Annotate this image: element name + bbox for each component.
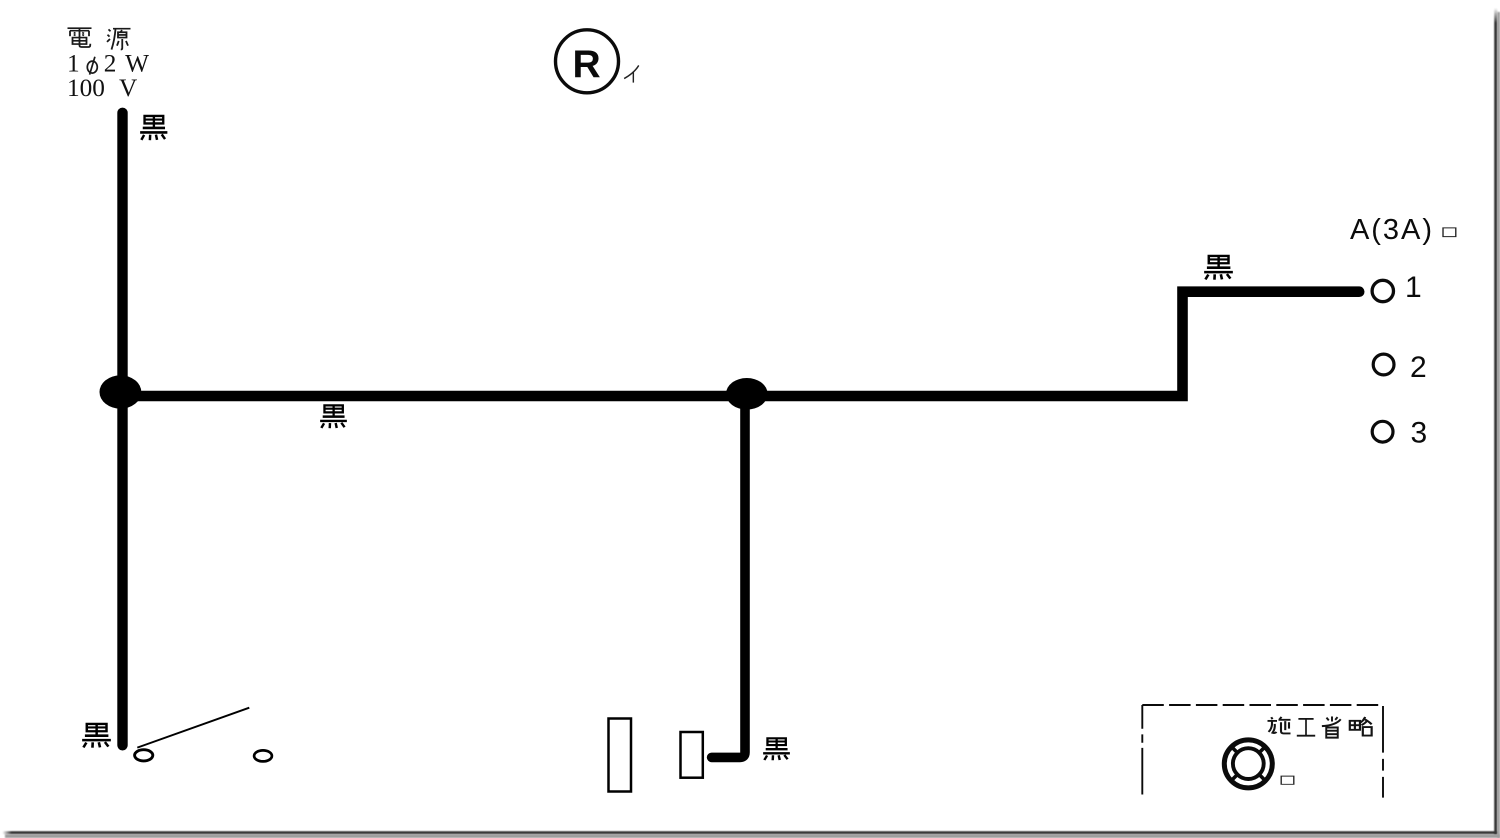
label: construction omitted 施工省略 xyxy=(1268,717,1291,734)
label: wire color kuro (switch side) xyxy=(82,724,111,748)
svg-text:1: 1 xyxy=(1405,271,1422,304)
label: wire color kuro (top) xyxy=(140,116,167,140)
label: wire color kuro (mid) xyxy=(320,405,347,428)
label: wire color kuro (bottom) xyxy=(763,738,790,760)
label: power source 電源 xyxy=(68,28,92,47)
lamp receptacle R xyxy=(556,30,619,93)
svg-text:R: R xyxy=(573,43,601,86)
component: short rectangle device xyxy=(681,732,703,778)
label: katakana ro small xyxy=(1443,228,1456,237)
label: wire color kuro (right) xyxy=(1204,256,1233,280)
junction node: left xyxy=(100,375,142,408)
component: tall rectangle device xyxy=(609,719,632,792)
label: katakana i for lamp xyxy=(624,65,639,82)
page border: right shadow xyxy=(1497,12,1500,838)
terminal 1 circle xyxy=(1372,280,1393,301)
label: katakana ro for ceiling xyxy=(1281,776,1294,784)
svg-text:V: V xyxy=(119,74,137,102)
terminal 3 circle xyxy=(1372,421,1393,442)
page border: bottom shadow xyxy=(5,834,1500,838)
svg-text:100: 100 xyxy=(67,74,105,102)
wire: branch down to connector xyxy=(712,398,745,757)
switch: left contact xyxy=(135,750,153,761)
terminal 2 circle xyxy=(1373,354,1394,375)
ceiling rose symbol xyxy=(1224,740,1272,788)
page border: right dark line xyxy=(1494,8,1497,834)
junction node: center xyxy=(726,378,768,410)
svg-text:A(3A): A(3A) xyxy=(1350,214,1432,246)
wire: main horizontal run with step up to terminal 1 xyxy=(123,292,1360,396)
svg-text:3: 3 xyxy=(1411,417,1428,450)
svg-text:2: 2 xyxy=(104,50,117,78)
svg-text:2: 2 xyxy=(1410,351,1427,384)
page border: bottom dark line xyxy=(3,831,1498,834)
wire: source vertical black wire xyxy=(117,113,127,746)
omitted-construction dashed box xyxy=(1142,704,1383,706)
switch: lever arm xyxy=(137,708,249,748)
switch: right contact xyxy=(254,750,272,761)
